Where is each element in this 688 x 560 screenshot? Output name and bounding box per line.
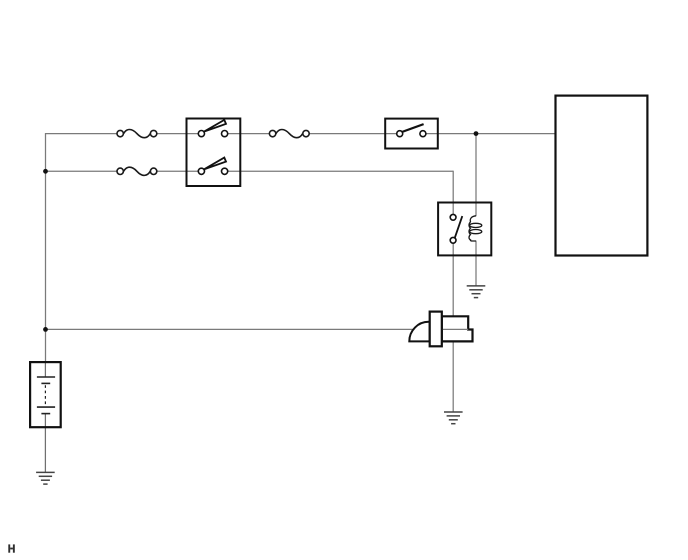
- battery B1: [30, 362, 61, 427]
- relay coil: [469, 216, 482, 241]
- node: junction top wire / relay coil: [474, 131, 479, 136]
- ground (battery): [36, 472, 55, 484]
- switch box S1 (double contact): [187, 119, 241, 187]
- horn H1: internal wire stub: [442, 328, 468, 330]
- wire: left bus vertical: [45, 133, 47, 362]
- switch S2 contact: [397, 124, 426, 137]
- wire: horn feed from bus: [46, 328, 419, 330]
- wire: down into relay contact: [452, 171, 454, 215]
- node: bus / horn feed: [43, 327, 48, 332]
- ground (horn): [444, 412, 463, 424]
- node: bus / lower feed: [43, 169, 48, 174]
- wire: relay contact down to horn: [452, 243, 454, 316]
- wire: relay coil to ground: [475, 241, 477, 286]
- relay box: [438, 203, 491, 256]
- wire: switch box to fuse F3: [228, 133, 270, 135]
- wire: battery bottom lead to ground: [44, 414, 46, 473]
- wire: fuse F1 to switch box contact: [157, 133, 199, 135]
- fuse F3 (top row, after switch box): [269, 130, 309, 138]
- fuse F1 (top row): [117, 130, 157, 138]
- big box (horn ECU): [556, 96, 648, 256]
- relay contact: [450, 214, 462, 243]
- wire: switch S2 to big box, through node: [426, 133, 556, 135]
- horn H1: stepped body: [442, 316, 473, 341]
- horn H1: bell: [409, 322, 429, 342]
- wire: fuse F3 to switch S2: [309, 133, 397, 135]
- label H: [8, 544, 14, 552]
- horn H1: driver rectangle: [430, 312, 442, 347]
- wire: lower feed from bus to fuse F2: [46, 170, 118, 172]
- wire: switch box to relay horizontal run: [228, 170, 454, 172]
- wire: top feed from bus to fuse F1: [46, 133, 118, 135]
- ground (relay): [467, 286, 486, 298]
- switch contact 2 (bottom): [198, 158, 227, 175]
- wire: horn to ground: [452, 341, 454, 412]
- switch contact 1 (top): [198, 120, 227, 137]
- fuse F2 (lower row): [117, 167, 157, 175]
- wire: battery top lead: [44, 362, 46, 377]
- wire: fuse F2 to switch box contact 2: [157, 170, 199, 172]
- wire: node down to relay coil: [475, 134, 477, 217]
- switch S2 (single contact box): [385, 119, 438, 149]
